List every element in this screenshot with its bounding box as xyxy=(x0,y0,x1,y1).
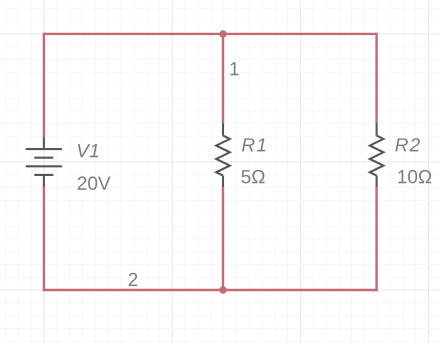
node label: 2 xyxy=(129,273,138,286)
node label: 1 xyxy=(230,62,238,75)
wire: bottom horizontal (net 2) xyxy=(44,289,377,291)
wire: top horizontal (net 1) xyxy=(44,33,377,35)
battery V1 xyxy=(26,137,62,186)
wire: left vertical lower (V1 negative terminal to node 2) xyxy=(43,186,45,291)
wire: left vertical upper (node 1 to V1 positive terminal) xyxy=(43,33,45,138)
wire: right vertical upper (node 1 to R2) xyxy=(375,33,377,124)
wire: middle vertical lower (R1 to node 2) xyxy=(222,187,224,290)
wire: right vertical lower (R2 to node 2) xyxy=(375,187,377,291)
wire: middle vertical upper (node 1 to R1) xyxy=(222,34,224,124)
battery V1 name label xyxy=(78,144,98,157)
resistor R1 xyxy=(216,123,230,187)
resistor R2 name label xyxy=(395,138,420,151)
resistor R2 value label: 10 ohm xyxy=(398,170,431,183)
junction dot: node 2 xyxy=(219,286,226,293)
resistor R2 xyxy=(370,123,384,187)
junction dot: node 1 xyxy=(219,30,226,37)
battery V1 value label: 20V xyxy=(78,176,111,189)
resistor R1 name label xyxy=(242,138,265,151)
resistor R1 value label: 5 ohm xyxy=(241,170,264,183)
